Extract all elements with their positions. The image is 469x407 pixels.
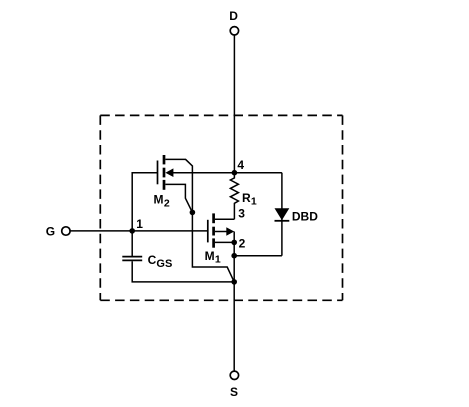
wire M2 source chain bbox=[165, 184, 192, 212]
mosfet M2 bbox=[158, 155, 165, 190]
M2 body arrow bbox=[165, 168, 173, 177]
wire node4 horizontal bbox=[173, 172, 282, 174]
wire M2 junction to S node bbox=[192, 212, 234, 282]
terminal D circle bbox=[230, 27, 238, 35]
node 4 junction dot bbox=[232, 170, 238, 176]
svg-text:M: M bbox=[154, 193, 164, 207]
svg-text:4: 4 bbox=[237, 158, 244, 172]
wire gate horizontal bbox=[70, 230, 208, 232]
node 1 junction dot bbox=[129, 228, 135, 234]
svg-text:C: C bbox=[148, 253, 157, 267]
svg-text:R: R bbox=[242, 191, 251, 205]
capacitor CGS plates bbox=[122, 256, 142, 258]
svg-text:G: G bbox=[46, 224, 55, 238]
body diode DBD triangle bbox=[275, 208, 290, 220]
svg-text:1: 1 bbox=[215, 254, 221, 266]
terminal G circle bbox=[62, 227, 70, 235]
wire drain vertical bbox=[233, 35, 235, 173]
body diode DBD cathode bar bbox=[275, 220, 290, 222]
svg-text:1: 1 bbox=[136, 217, 143, 231]
wire node1 to M2 gate bbox=[132, 173, 157, 231]
terminal S circle bbox=[230, 371, 238, 379]
svg-text:D: D bbox=[229, 9, 238, 23]
svg-text:3: 3 bbox=[238, 207, 245, 221]
wire M2 drain chain bbox=[165, 159, 192, 212]
svg-text:2: 2 bbox=[164, 198, 170, 210]
node junction DBD bottom bbox=[231, 253, 237, 259]
capacitor CGS bottom lead bbox=[132, 261, 234, 282]
dashed enclosure box bbox=[100, 115, 342, 300]
capacitor CGS top lead bbox=[131, 231, 133, 256]
svg-text:GS: GS bbox=[156, 258, 172, 270]
wire M1 body to node 2 bbox=[233, 232, 235, 243]
node S junction dot bbox=[231, 279, 237, 285]
M1 body arrow bbox=[226, 227, 234, 235]
wire DBD bottom horizontal bbox=[234, 255, 282, 257]
svg-text:2: 2 bbox=[239, 236, 246, 250]
resistor R1 bbox=[230, 173, 238, 220]
wire DBD branch vertical bbox=[281, 173, 283, 256]
mosfet M1 bbox=[208, 213, 227, 247]
node M2 junction dot bbox=[190, 210, 196, 216]
wire source vertical bbox=[233, 242, 235, 371]
svg-text:DBD: DBD bbox=[292, 210, 318, 224]
node 2 junction dot bbox=[231, 240, 237, 246]
svg-text:M: M bbox=[205, 249, 215, 263]
svg-text:1: 1 bbox=[251, 196, 257, 208]
wire M1 source lead bbox=[215, 241, 234, 243]
svg-text:S: S bbox=[230, 385, 238, 399]
wire node 3 (R1 bottom to M1 drain) bbox=[215, 218, 235, 220]
